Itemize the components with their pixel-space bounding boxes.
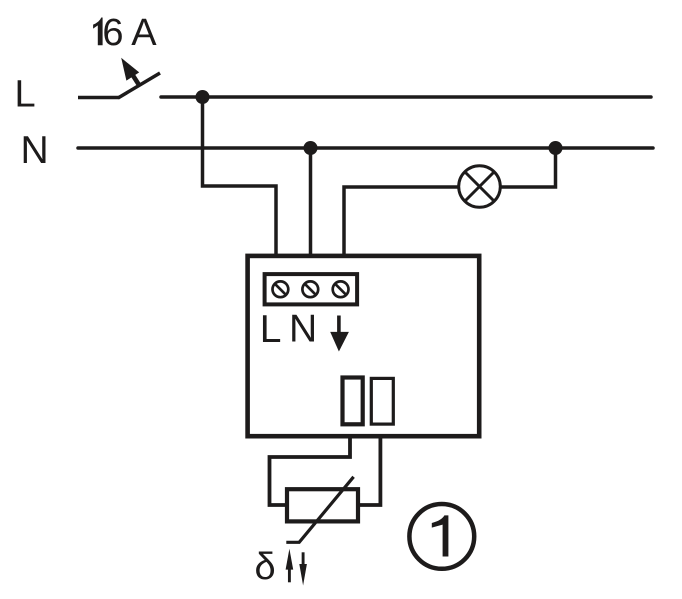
arrow output down	[330, 316, 349, 352]
lamp E1	[459, 166, 501, 208]
svg-text:6: 6	[102, 12, 123, 54]
breaker switch S1 blade	[118, 73, 160, 98]
svg-text:A: A	[131, 12, 157, 54]
svg-text:N: N	[289, 308, 317, 351]
wire N main line	[78, 146, 653, 150]
arrow temperature up	[286, 549, 294, 583]
node L junction	[196, 90, 210, 104]
wire sensor left loop	[270, 435, 351, 505]
wire L left stub	[78, 96, 119, 100]
terminal block	[265, 274, 358, 304]
svg-text:N: N	[21, 129, 49, 172]
node N junction 2	[549, 141, 563, 155]
wire L branch to box	[203, 97, 277, 254]
wire lamp branch from N node	[501, 148, 556, 187]
wire N branch to box	[309, 148, 313, 254]
node N junction 1	[304, 141, 318, 155]
terminal screw N	[302, 281, 318, 297]
connector slot 1	[343, 378, 363, 425]
device box	[248, 256, 480, 436]
callout circle 1	[409, 504, 474, 569]
wire lamp to box	[344, 187, 458, 254]
connector slot 2	[371, 378, 393, 424]
terminal screw L	[273, 281, 289, 297]
svg-text:L: L	[260, 308, 282, 351]
thermistor sensor body	[287, 489, 358, 521]
label 16 A	[93, 12, 157, 54]
wire sensor right	[360, 435, 380, 505]
breaker switch S1 release arrow	[121, 58, 140, 87]
arrow temperature down	[299, 552, 307, 585]
thermistor diagonal	[286, 477, 353, 543]
wire L main line	[161, 95, 651, 99]
terminal screw output	[333, 281, 349, 297]
svg-text:L: L	[15, 74, 36, 116]
svg-text:δ: δ	[255, 546, 276, 588]
